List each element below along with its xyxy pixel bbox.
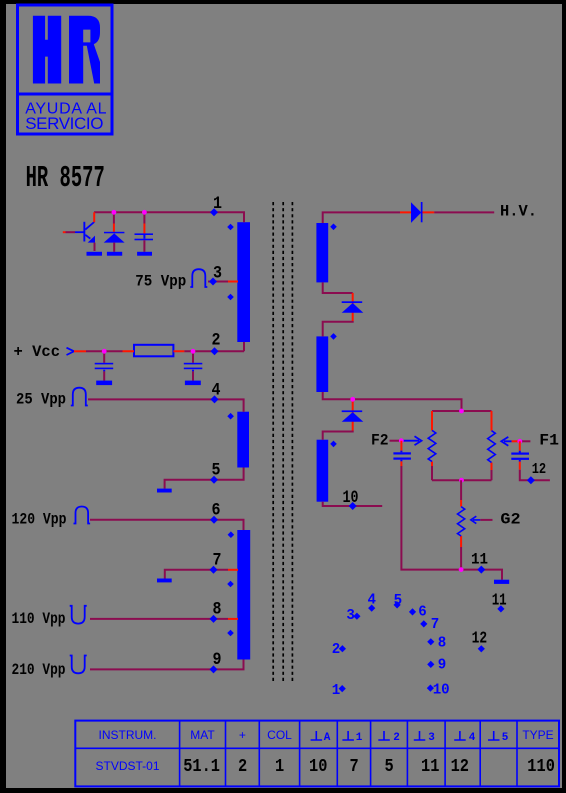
ground pin5 bbox=[157, 489, 172, 493]
ground pin11 bbox=[494, 580, 509, 584]
wire D3 red lead bbox=[352, 399, 354, 430]
svg-text:2: 2 bbox=[393, 732, 400, 744]
capacitor C2 bbox=[95, 351, 114, 380]
node network top bbox=[459, 409, 464, 414]
pinout pin 9 bbox=[427, 661, 434, 668]
pinout pin 5 bbox=[394, 601, 401, 608]
wire F2 branch lower bbox=[431, 466, 433, 480]
arrow F1 wiper bbox=[501, 437, 511, 446]
svg-text:25 Vpp: 25 Vpp bbox=[16, 391, 66, 409]
diode D1 bbox=[104, 212, 125, 252]
polarity dot winding P2 bbox=[227, 413, 234, 420]
resistor G2 red leads bbox=[460, 500, 462, 547]
pinout pin 3 bbox=[353, 613, 360, 620]
node F2 dot bbox=[399, 438, 404, 443]
arrow F2 wiper bbox=[403, 436, 422, 445]
polarity dot winding P1 upper bbox=[227, 224, 234, 231]
wire pin10 bbox=[323, 502, 383, 506]
svg-text:8: 8 bbox=[438, 635, 447, 652]
svg-text:5: 5 bbox=[502, 732, 509, 744]
wire D2 red lead bbox=[352, 293, 354, 321]
winding S3 bbox=[317, 440, 329, 502]
ground pin7 bbox=[157, 579, 172, 583]
wire Vcc red lead bbox=[74, 350, 86, 352]
wire pin6 bbox=[90, 520, 244, 530]
pulse symbol 210Vpp inverted bbox=[70, 656, 87, 674]
wire pin5 bbox=[165, 468, 244, 489]
svg-text:210 Vpp: 210 Vpp bbox=[12, 661, 66, 679]
polarity dot winding S1 bbox=[330, 224, 337, 231]
wire S1 bottom to D2 bbox=[323, 282, 353, 293]
ground C3 bbox=[185, 381, 201, 386]
svg-text:110: 110 bbox=[527, 756, 555, 777]
pin 8 terminal diamond bbox=[210, 615, 218, 623]
pin 5 terminal diamond bbox=[210, 476, 218, 484]
capacitor C1 bbox=[135, 212, 154, 252]
wire D3 to S3 top bbox=[323, 431, 353, 440]
potentiometer F2 red leads bbox=[431, 411, 433, 466]
ground C1 bbox=[137, 252, 152, 256]
svg-text:A: A bbox=[324, 732, 331, 744]
logo letter H bbox=[33, 16, 61, 84]
pulse symbol 25Vpp bbox=[71, 388, 88, 406]
svg-text:HR 8577: HR 8577 bbox=[26, 161, 105, 196]
svg-text:COL: COL bbox=[267, 728, 292, 742]
svg-text:SERVICIO: SERVICIO bbox=[25, 114, 103, 133]
pinout pin 1 bbox=[339, 685, 346, 692]
svg-text:110 Vpp: 110 Vpp bbox=[12, 610, 66, 628]
wire G2 branch bbox=[460, 480, 462, 500]
svg-text:2: 2 bbox=[238, 756, 247, 777]
svg-text:11: 11 bbox=[471, 551, 488, 569]
svg-text:75 Vpp: 75 Vpp bbox=[135, 272, 186, 290]
wire G2 lower bbox=[460, 547, 462, 570]
svg-text:TYPE: TYPE bbox=[522, 728, 553, 742]
potentiometer F1 red leads bbox=[491, 411, 493, 470]
polarity dot winding S3 bbox=[330, 441, 337, 448]
svg-text:+ Vcc: + Vcc bbox=[14, 343, 61, 361]
wire F1 branch lower bbox=[491, 470, 493, 480]
pulse symbol 120Vpp bbox=[74, 507, 91, 524]
wire secondary top to HV bbox=[323, 212, 400, 223]
wire pin1 top bbox=[94, 212, 244, 222]
svg-text:7: 7 bbox=[350, 756, 359, 777]
wire pin2 bbox=[86, 342, 244, 351]
pulse symbol 75Vpp bbox=[190, 269, 207, 287]
wire pin8 red lead bbox=[228, 618, 238, 620]
svg-text:INSTRUM.: INSTRUM. bbox=[99, 728, 157, 742]
svg-text:12: 12 bbox=[472, 628, 488, 647]
svg-text:STVDST-01: STVDST-01 bbox=[95, 759, 159, 773]
pulse symbol 110Vpp inverted bbox=[70, 606, 87, 624]
svg-text:2: 2 bbox=[332, 641, 341, 658]
node F1 dot bbox=[517, 439, 522, 444]
svg-text:120 Vpp: 120 Vpp bbox=[12, 511, 67, 529]
svg-text:F1: F1 bbox=[539, 431, 559, 449]
polarity dot winding P3 lower bbox=[227, 630, 234, 637]
winding P1 (pins 1-3-2) bbox=[237, 222, 250, 342]
svg-text:+: + bbox=[239, 728, 246, 742]
svg-text:10: 10 bbox=[433, 682, 450, 699]
pinout pin 2 bbox=[339, 645, 346, 652]
svg-text:51.1: 51.1 bbox=[183, 756, 220, 777]
wire D2 to S2 top bbox=[323, 321, 353, 336]
wire HV out bbox=[434, 211, 494, 213]
wire F2 label stub bbox=[390, 440, 402, 442]
svg-text:4: 4 bbox=[469, 732, 476, 744]
winding P3 (pins 6-7-8-9) bbox=[237, 530, 250, 660]
winding P2 (pins 4-5) bbox=[237, 412, 249, 468]
transistor Q1 bbox=[63, 212, 95, 251]
logo letter R bbox=[69, 16, 100, 84]
svg-text:9: 9 bbox=[438, 657, 447, 674]
winding S2 bbox=[316, 336, 328, 392]
pin 7 terminal diamond bbox=[210, 566, 218, 574]
wire pin4 bbox=[88, 399, 244, 411]
wire pin7 red lead bbox=[228, 569, 238, 571]
svg-text:G2: G2 bbox=[500, 511, 520, 529]
wire pin3 bbox=[208, 281, 228, 283]
node C1 top junction bbox=[142, 210, 147, 215]
polarity dot winding P3 middle bbox=[227, 581, 234, 588]
ground Q1 bbox=[87, 252, 103, 256]
pinout pin 8 bbox=[427, 638, 434, 645]
pinout pin 12 bbox=[478, 645, 485, 652]
capacitor C3 bbox=[184, 351, 203, 380]
ground C2 bbox=[96, 381, 112, 386]
wire C5 to pin12 bbox=[520, 470, 550, 481]
wire C4 down to pin11 rail bbox=[401, 466, 460, 570]
svg-text:10: 10 bbox=[309, 756, 327, 777]
svg-text:3: 3 bbox=[346, 607, 355, 624]
svg-text:7: 7 bbox=[431, 616, 440, 633]
wire pin7 bbox=[165, 570, 228, 579]
wire HV diode red leads bbox=[400, 211, 434, 213]
node C2 junction bbox=[102, 349, 107, 354]
focus network box wires bbox=[432, 411, 492, 480]
node S2 junction dot bbox=[350, 397, 355, 402]
Vcc input chevron bbox=[67, 348, 75, 355]
svg-text:12: 12 bbox=[532, 461, 547, 478]
pin 3 terminal diamond bbox=[209, 278, 217, 286]
polarity dot winding S2 bbox=[330, 333, 337, 340]
polarity dot winding P3 upper bbox=[228, 531, 235, 538]
potentiometer F1 zigzag bbox=[488, 431, 496, 463]
pinout pin 4 bbox=[368, 605, 375, 612]
svg-text:1: 1 bbox=[356, 732, 363, 744]
diode D3 bbox=[342, 410, 363, 412]
pinout pin 6 bbox=[409, 608, 416, 615]
node pin11 dot bbox=[459, 567, 464, 572]
node D1 top junction bbox=[112, 210, 117, 215]
potentiometer F2 zigzag bbox=[428, 430, 436, 461]
wire pin9 bbox=[90, 660, 244, 670]
svg-text:11: 11 bbox=[421, 756, 439, 777]
pinout pin 7 bbox=[420, 620, 427, 627]
table headers ground pins bbox=[311, 731, 509, 744]
resistor R1 bbox=[134, 345, 173, 357]
svg-text:F2: F2 bbox=[371, 432, 389, 450]
ground D1 bbox=[107, 252, 122, 256]
svg-text:2: 2 bbox=[212, 331, 221, 351]
pin 2 terminal diamond bbox=[211, 347, 219, 355]
resistor G2 zigzag bbox=[458, 507, 465, 536]
svg-text:5: 5 bbox=[385, 756, 394, 777]
pin 11 diamond bbox=[477, 566, 485, 574]
svg-text:1: 1 bbox=[275, 756, 284, 777]
pin 4 terminal diamond bbox=[211, 395, 219, 403]
wire F1 red lead bbox=[512, 440, 518, 442]
pin 1 terminal diamond bbox=[210, 208, 218, 216]
wire G2 label stub bbox=[480, 519, 492, 521]
wire S2 bottom junction bbox=[323, 392, 462, 411]
logo HR box bbox=[18, 5, 113, 134]
svg-text:H.V.: H.V. bbox=[500, 203, 537, 221]
svg-text:3: 3 bbox=[428, 732, 435, 744]
pin 10 diamond bbox=[349, 502, 357, 510]
pinout pin 11 bbox=[497, 605, 504, 612]
resistor R1 red leads bbox=[123, 350, 185, 352]
node C3 junction bbox=[191, 349, 196, 354]
svg-text:11: 11 bbox=[492, 590, 507, 609]
diode D2 bbox=[342, 301, 363, 303]
svg-text:1: 1 bbox=[332, 682, 341, 699]
capacitor C4 F2 bbox=[393, 441, 411, 466]
pinout pin 10 bbox=[427, 685, 434, 692]
data table bbox=[75, 721, 559, 787]
polarity dot winding P1 lower bbox=[227, 294, 234, 301]
transformer core dashed lines bbox=[273, 202, 292, 683]
pin 9 terminal diamond bbox=[210, 665, 218, 673]
svg-text:MAT: MAT bbox=[190, 728, 215, 742]
pin 6 terminal diamond bbox=[210, 516, 218, 524]
pinout diagram bbox=[332, 590, 507, 699]
svg-text:12: 12 bbox=[451, 756, 469, 777]
node network bottom bbox=[459, 478, 464, 483]
svg-text:6: 6 bbox=[418, 604, 427, 621]
diode D4 HV bbox=[411, 202, 421, 223]
wire pin8 bbox=[90, 618, 228, 620]
pin 12 diamond bbox=[527, 476, 535, 484]
arrow G2 wiper bbox=[471, 516, 481, 523]
capacitor C5 F1 bbox=[511, 441, 529, 469]
wire F1 label stub bbox=[521, 440, 530, 442]
winding S1 bbox=[316, 223, 328, 282]
wire pin3 red lead bbox=[228, 281, 238, 283]
wire pin11 rail bbox=[460, 570, 502, 580]
